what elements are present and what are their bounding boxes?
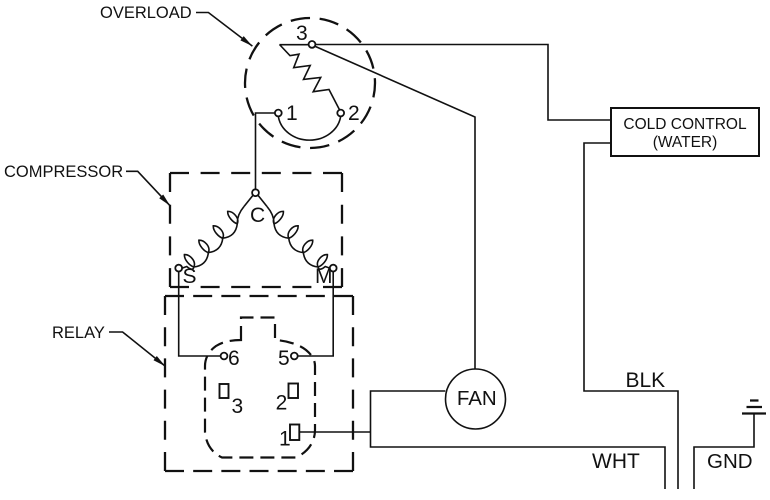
overload bimetal disc arc between pin 1 and pin 2	[278, 116, 340, 140]
svg-text:BLK: BLK	[626, 369, 666, 392]
svg-text:6: 6	[228, 347, 240, 370]
compressor dashed outline	[170, 173, 342, 287]
svg-text:OVERLOAD: OVERLOAD	[100, 4, 192, 22]
svg-text:(WATER): (WATER)	[653, 134, 718, 151]
svg-text:3: 3	[296, 22, 308, 45]
svg-text:COLD CONTROL: COLD CONTROL	[623, 116, 747, 133]
wire fan to WHT	[371, 391, 666, 489]
svg-text:COMPRESSOR: COMPRESSOR	[4, 163, 123, 181]
compressor start winding C to S	[182, 207, 244, 270]
compressor run winding C to M	[267, 207, 330, 270]
wire compressor S to relay pin 6	[179, 272, 221, 357]
svg-text:2: 2	[348, 102, 360, 125]
fan motor	[446, 369, 506, 429]
svg-text:RELAY: RELAY	[52, 324, 105, 342]
svg-text:3: 3	[232, 395, 244, 418]
relay pin 3 terminal	[220, 384, 229, 398]
svg-text:S: S	[183, 265, 197, 288]
overload heater resistor between pin 3 and pin 2	[280, 44, 312, 46]
leader arrowhead OVERLOAD	[240, 36, 252, 46]
svg-text:WHT: WHT	[592, 450, 640, 473]
relay pin 2 terminal	[289, 384, 299, 399]
overload pin 2 terminal	[337, 110, 344, 117]
relay body dashed blob	[205, 318, 315, 458]
relay pin 1 terminal	[290, 425, 299, 441]
leader line COMPRESSOR	[126, 171, 170, 206]
wire relay pin 1 to fan/WHT junction	[299, 431, 370, 433]
svg-text:FAN: FAN	[457, 387, 497, 410]
svg-text:1: 1	[286, 102, 298, 125]
wire overload pin 3 to cold control	[316, 45, 612, 121]
relay pin 6 terminal	[221, 353, 228, 360]
leader line RELAY	[109, 332, 165, 366]
overload pin 3 terminal	[309, 41, 316, 48]
cold control box	[611, 108, 759, 156]
relay dashed outline	[165, 296, 353, 471]
wire overload pin 1 to compressor C	[256, 113, 275, 189]
compressor winding split legs from C	[244, 195, 267, 206]
leader arrowhead RELAY	[154, 356, 166, 366]
wire ground to GND	[694, 414, 754, 490]
svg-text:5: 5	[278, 347, 290, 370]
svg-text:M: M	[315, 265, 333, 288]
wire compressor M to relay pin 5	[298, 272, 334, 357]
wire cold control to BLK	[584, 143, 678, 489]
svg-text:GND: GND	[707, 450, 753, 473]
compressor terminal C	[252, 189, 259, 196]
overload protector dashed outline	[245, 18, 375, 148]
compressor terminal S	[175, 265, 182, 272]
leader arrowhead COMPRESSOR	[159, 195, 170, 206]
overload pin 1 terminal	[275, 110, 282, 117]
relay pin 5 terminal	[291, 353, 298, 360]
svg-text:2: 2	[276, 392, 288, 415]
compressor terminal M	[330, 265, 337, 272]
leader line OVERLOAD	[196, 13, 252, 47]
svg-text:C: C	[250, 204, 265, 227]
ground symbol	[742, 401, 766, 414]
wire overload pin 3 to fan (diagonal)	[315, 46, 475, 369]
svg-text:1: 1	[279, 428, 291, 451]
